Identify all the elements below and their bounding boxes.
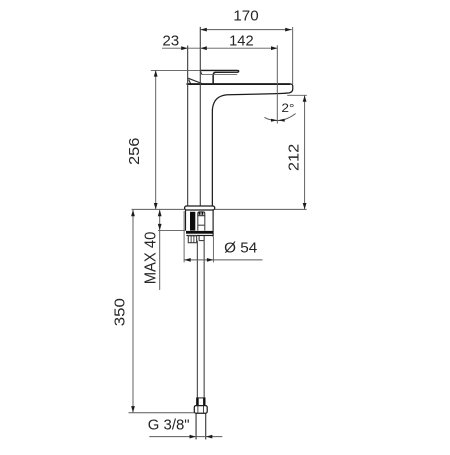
mounting flange dark plate [186,231,213,234]
svg-text:170: 170 [233,7,258,24]
G3/8 thread stub with extension lines [196,413,206,439]
svg-text:MAX 40: MAX 40 [143,232,160,285]
svg-text:2°: 2° [281,101,294,115]
column left edge (with 23-dim extension above) [187,46,189,207]
dimension 212 [304,95,306,209]
extension line 142 right / 2deg vertex [276,45,278,123]
extension line hose nut left [129,412,195,414]
spout right edge and underside [212,84,292,206]
hose ferrule [197,398,205,406]
clamping nut under flange [188,236,196,243]
valve black block [190,212,195,231]
svg-text:256: 256 [126,138,143,166]
dimension 170 [200,29,291,31]
extension line right of 170 merging into spout edge [292,27,294,84]
extension line lever top left [151,69,200,71]
threaded stud below flange [199,236,204,241]
cartridge cap [198,212,205,216]
handle base wedge [188,78,202,85]
faucet body top edge [187,83,291,85]
base collar ring [185,206,215,210]
dimension MAX 40 [159,210,161,290]
cartridge cylinder [198,216,205,231]
hose end nut [194,406,207,414]
svg-text:G 3/8": G 3/8" [148,417,190,434]
svg-text:212: 212 [285,144,302,171]
supply hose [197,241,204,398]
column middle contour (with 170/142 left extension above) [199,27,201,206]
svg-text:350: 350 [112,298,129,326]
extension line spout underside right [287,94,307,96]
svg-text:Ø 54: Ø 54 [224,240,257,257]
dimension 350 [132,210,134,412]
svg-text:142: 142 [229,33,254,50]
flange lower band [186,235,213,236]
dimension G 3/8 thread [149,436,222,438]
faucet lever handle blade [200,70,239,83]
dimension 23 / 142 shared line [162,47,277,49]
extension line flange top [158,229,186,231]
countertop extension line [132,208,185,210]
dimension diameter 54 [183,211,185,262]
svg-text:23: 23 [162,32,179,49]
base body sides [186,210,214,237]
dimension 256 [155,70,157,209]
2 degree angle arc [264,114,295,121]
